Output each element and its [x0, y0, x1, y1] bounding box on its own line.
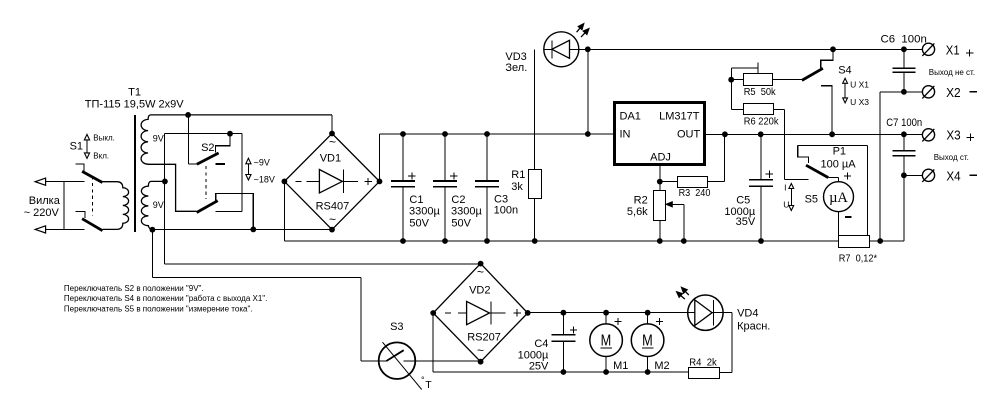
svg-text:X3: X3 — [946, 129, 960, 143]
svg-text:~: ~ — [329, 213, 336, 227]
svg-text:Выход не ст.: Выход не ст. — [929, 68, 975, 77]
svg-text:U: U — [783, 199, 789, 209]
svg-text:~ 220V: ~ 220V — [24, 207, 60, 219]
svg-text:VD2: VD2 — [469, 285, 490, 297]
svg-text:~: ~ — [477, 265, 484, 279]
svg-text:C1: C1 — [409, 194, 423, 206]
svg-text:S3: S3 — [390, 321, 403, 333]
svg-text:3k: 3k — [511, 181, 523, 193]
svg-text:R4 2k: R4 2k — [689, 356, 717, 368]
svg-text:9V: 9V — [153, 133, 164, 143]
svg-text:Красн.: Красн. — [737, 321, 770, 333]
svg-text:C2: C2 — [451, 194, 465, 206]
svg-text:P1: P1 — [833, 146, 846, 158]
svg-text:DA1: DA1 — [620, 110, 641, 122]
svg-text:M1: M1 — [613, 360, 628, 372]
svg-text:X1: X1 — [946, 44, 960, 58]
svg-text:S2: S2 — [201, 142, 214, 154]
svg-text:100 µA: 100 µA — [820, 158, 856, 170]
svg-text:3300µ: 3300µ — [409, 206, 440, 218]
svg-text:Зел.: Зел. — [505, 62, 527, 74]
svg-text:S1: S1 — [70, 141, 83, 153]
svg-text:VD4: VD4 — [737, 307, 758, 319]
svg-text:RS207: RS207 — [467, 332, 501, 344]
svg-text:M: M — [642, 333, 653, 350]
svg-text:9V: 9V — [153, 200, 164, 210]
svg-text:~9V: ~9V — [254, 157, 270, 167]
svg-text:ADJ: ADJ — [650, 151, 671, 163]
svg-text:VD1: VD1 — [320, 153, 341, 165]
svg-text:M2: M2 — [654, 360, 669, 372]
svg-text:R1: R1 — [511, 169, 525, 181]
svg-text:C4: C4 — [534, 338, 548, 350]
svg-text:U X3: U X3 — [850, 97, 869, 107]
svg-text:µA: µA — [829, 190, 848, 206]
svg-text:Вилка: Вилка — [29, 195, 61, 207]
svg-text:S5: S5 — [805, 193, 818, 205]
svg-text:~: ~ — [477, 343, 484, 357]
svg-text:100n: 100n — [494, 205, 518, 217]
svg-text:3300µ: 3300µ — [451, 206, 482, 218]
svg-text:1000µ: 1000µ — [518, 349, 549, 361]
svg-text:OUT: OUT — [677, 128, 701, 140]
svg-text:~18V: ~18V — [254, 175, 275, 185]
svg-text:R7 0,12*: R7 0,12* — [839, 253, 877, 265]
svg-text:50V: 50V — [451, 217, 471, 229]
svg-text:LM317T: LM317T — [659, 110, 700, 122]
svg-text:Переключатель S4 в положении ": Переключатель S4 в положении "работа с в… — [64, 294, 267, 303]
svg-text:Вкл.: Вкл. — [93, 151, 109, 160]
svg-text:R6 220k: R6 220k — [744, 115, 779, 127]
svg-text:ТП-115 19,5W 2x9V: ТП-115 19,5W 2x9V — [85, 99, 184, 111]
svg-text:5,6k: 5,6k — [627, 206, 648, 218]
svg-text:Выход ст.: Выход ст. — [934, 153, 969, 162]
svg-text:U X1: U X1 — [850, 80, 869, 90]
svg-text:25V: 25V — [529, 361, 549, 373]
svg-text:T: T — [425, 379, 432, 391]
svg-text:S4: S4 — [838, 64, 851, 76]
svg-text:I: I — [784, 183, 786, 193]
svg-text:50V: 50V — [409, 217, 429, 229]
svg-text:R3 240: R3 240 — [679, 187, 711, 199]
svg-text:C5: C5 — [736, 195, 750, 207]
svg-text:R5 50k: R5 50k — [744, 86, 777, 98]
svg-text:R2: R2 — [634, 195, 648, 207]
svg-text:X4: X4 — [946, 170, 960, 184]
svg-text:X2: X2 — [946, 86, 961, 100]
svg-text:IN: IN — [620, 128, 631, 140]
svg-text:Переключатель S5 в положении ": Переключатель S5 в положении "измерение … — [64, 305, 253, 314]
svg-text:35V: 35V — [736, 216, 756, 228]
svg-text:Выкл.: Выкл. — [93, 133, 115, 142]
svg-text:C6 100n: C6 100n — [881, 34, 927, 46]
svg-text:RS407: RS407 — [316, 200, 350, 212]
svg-text:C7 100n: C7 100n — [886, 117, 922, 129]
svg-text:Переключатель S2 в положении ": Переключатель S2 в положении "9V". — [64, 284, 204, 293]
svg-text:T1: T1 — [128, 86, 141, 98]
svg-text:~: ~ — [329, 135, 336, 149]
svg-text:M: M — [601, 333, 612, 350]
